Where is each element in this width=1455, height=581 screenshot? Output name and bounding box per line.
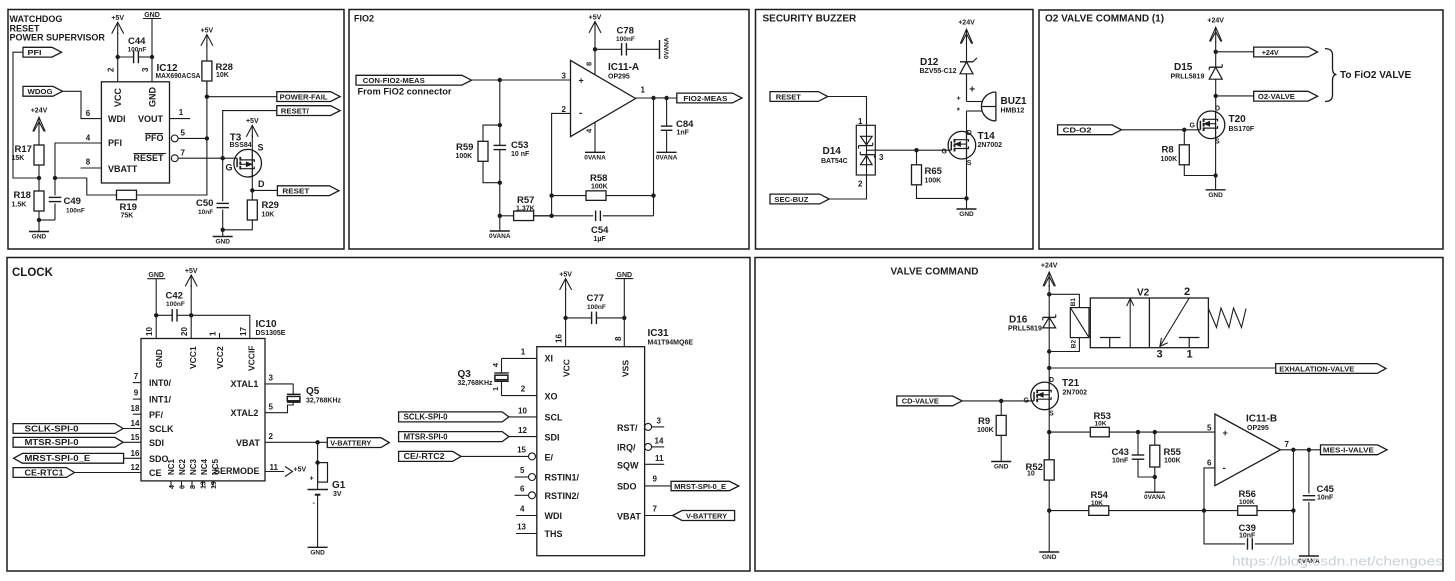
resistor R59 100K [483,125,500,141]
pin SERMODE stub 11 to +5V [265,471,284,473]
svg-text:C43: C43 [1112,447,1129,458]
svg-text:13: 13 [201,481,208,489]
wire +5V to VCC pin 2 [117,32,119,82]
svg-text:V2: V2 [1137,288,1150,299]
wire GND to VSS [623,279,625,347]
wire SCLK to pin 10 [509,416,537,418]
svg-text:+24V: +24V [1262,48,1279,57]
transistor T3 BSS84 [234,149,262,177]
wire C49 bottom to R18 bottom [39,219,55,221]
svg-text:GND: GND [959,211,974,218]
pin INT1/ stub 9 [133,398,141,400]
svg-text:SQW: SQW [617,461,639,471]
svg-text:6: 6 [520,485,525,494]
svg-text:3: 3 [141,67,150,72]
svg-text:R8: R8 [1162,145,1174,156]
svg-text:FIO2-MEAS: FIO2-MEAS [683,94,727,103]
wire R56 to output [1257,510,1293,512]
svg-text:THS: THS [545,529,563,539]
pin 6 stub RSTIN2/ [515,494,529,496]
junction source/ground [964,196,968,200]
svg-text:BUZ1: BUZ1 [1001,96,1028,107]
svg-text:+5V: +5V [589,14,602,21]
wire feedback to op-amp output [654,98,667,216]
svg-text:CD-VALVE: CD-VALVE [902,397,939,406]
svg-text:T21: T21 [1062,378,1080,389]
wire +5V to VCC1 [190,285,192,339]
svg-text:B1: B1 [1070,298,1077,307]
svg-text:XTAL1: XTAL1 [231,379,259,389]
svg-text:15: 15 [131,433,140,442]
transistor T21 2N7002 [1031,382,1059,410]
svg-text:VCC2: VCC2 [215,346,225,369]
svg-text:BS170F: BS170F [1229,126,1255,133]
ground GND (buzzer) [957,208,977,210]
wire to +24V tag [1216,51,1254,53]
svg-text:100nF: 100nF [616,36,635,43]
svg-text:D16: D16 [1009,315,1028,326]
svg-text:VBAT: VBAT [617,512,641,522]
svg-text:2: 2 [269,432,274,441]
svg-text:7: 7 [1285,440,1290,449]
svg-text:G: G [226,163,233,173]
svg-text:MAX690ACSA: MAX690ACSA [156,73,201,80]
svg-text:XI: XI [545,354,554,364]
buzzer BUZ1 HMB12 [995,92,997,121]
svg-text:G: G [942,149,948,156]
svg-text:SCL: SCL [545,413,564,423]
svg-text:CD-O2: CD-O2 [1063,126,1092,135]
svg-text:5: 5 [181,129,186,138]
svg-text:V-BATTERY: V-BATTERY [330,438,371,447]
svg-text:VOUT: VOUT [138,114,164,124]
wire feedback to op-amp - [552,113,571,215]
svg-text:WDI: WDI [108,114,126,124]
ground GND (R9) [991,461,1011,463]
svg-text:C84: C84 [676,119,694,130]
node V-BATTERY output tag [327,438,389,448]
svg-text:NC2: NC2 [178,458,187,475]
svg-text:+5V: +5V [185,268,198,275]
capacitor C84 1nF [666,98,668,126]
svg-text:0VANA: 0VANA [663,37,670,59]
ground 0VANA (R55) [1145,491,1165,493]
svg-text:RSTIN1/: RSTIN1/ [545,473,580,483]
wire D15 to O2-VALVE junction [1215,79,1217,111]
node SEC-BUZ input tag [770,194,829,204]
wire T20 source down [1215,138,1217,190]
junction C50/R29 ground [221,228,225,232]
svg-text:SCLK-SPI-0: SCLK-SPI-0 [25,423,79,433]
svg-text:NC3: NC3 [189,458,198,475]
svg-text:GND: GND [994,464,1009,471]
svg-text:SECURITY BUZZER: SECURITY BUZZER [763,14,857,25]
svg-text:+5V: +5V [559,271,572,278]
svg-text:6: 6 [1207,459,1212,468]
wire +24V to R17 [38,130,40,145]
capacitor C45 10nF [1308,450,1310,494]
node PFI input tag [23,47,62,57]
junction source/R53 [1047,430,1051,434]
svg-text:3: 3 [657,417,662,426]
wire rail to pin 17 [191,315,250,338]
svg-text:1.5K: 1.5K [12,202,27,209]
svg-text:8: 8 [585,62,594,66]
crystal Q5 32,768KHz [292,384,294,394]
svg-text:1nF: 1nF [677,130,690,137]
svg-text:SERMODE: SERMODE [214,466,260,476]
node CD-VALVE input tag [897,396,962,406]
D14 top diode [861,136,873,145]
svg-text:MRST-SPI-0_E: MRST-SPI-0_E [674,482,726,491]
svg-text:B2: B2 [1071,340,1078,349]
svg-text:V-BATTERY: V-BATTERY [686,511,727,520]
wire divider to R19 [55,178,117,195]
pin 5 stub XTAL2 [265,402,293,413]
svg-text:C54: C54 [591,225,609,236]
svg-text:O2-VALVE: O2-VALVE [1258,92,1295,101]
wire R28 to POWER-FAIL junction [206,81,208,97]
junction C44 left [116,55,120,59]
capacitor C77 100nF [591,312,593,325]
svg-text:GND: GND [310,549,325,556]
pin 1 stub XI [502,357,537,359]
svg-text:MES-I-VALVE: MES-I-VALVE [1323,446,1374,455]
resistor R29 10K [247,200,257,220]
pin PF/ stub 18 [133,413,141,415]
svg-text:E/: E/ [545,453,554,463]
svg-text:3: 3 [1157,349,1163,361]
svg-text:10K: 10K [1095,421,1107,428]
wire R18 to ground junction [38,211,40,220]
svg-text:PFI: PFI [28,48,42,57]
svg-text:XO: XO [545,392,558,402]
junction C44 right [150,55,154,59]
junction coil bottom [1047,349,1051,353]
svg-text:0VANA: 0VANA [656,154,678,161]
wire R53 to op-amp + [1109,431,1215,433]
svg-text:WATCHDOG: WATCHDOG [10,14,63,24]
pin 15 circle E/ [529,453,536,460]
svg-text:C53: C53 [511,140,528,151]
svg-text:12: 12 [518,426,527,435]
svg-text:SCLK-SPI-0: SCLK-SPI-0 [404,413,449,422]
wire to O2-VALVE tag [1216,95,1254,97]
wire CON-FIO2-MEAS to op-amp + [470,79,571,81]
svg-text:13: 13 [517,523,526,532]
svg-text:14: 14 [655,437,664,446]
svg-text:2N7002: 2N7002 [1063,390,1088,397]
svg-text:2: 2 [858,180,863,189]
junction - input [1202,508,1206,512]
pin 5 stub RSTIN1/ [515,476,529,478]
diode D15 PRLL5819 [1209,66,1222,68]
svg-text:11: 11 [655,454,664,463]
svg-text:SDO: SDO [617,482,637,492]
svg-text:https://blog.csdn.net/chengoes: https://blog.csdn.net/chengoes [1232,555,1443,569]
junction R55/C43 bottom [1153,475,1157,479]
svg-text:2N7002: 2N7002 [978,142,1003,149]
section box WATCHDOG RESET POWER SUPERVISOR [8,10,344,250]
svg-text:VCCIF: VCCIF [247,346,257,372]
svg-text:1.37K: 1.37K [516,206,535,213]
battery G1 3V [317,442,319,489]
svg-text:BAT54C: BAT54C [821,158,848,165]
node EXHALATION-VALVE output tag [1276,364,1386,374]
svg-text:R29: R29 [262,200,279,211]
svg-text:4: 4 [86,134,91,143]
resistor R57 1.37K [500,215,514,217]
wire feedback down [1292,450,1294,544]
pin 5 PFO circle [171,135,178,142]
wire RESET/ to gate net [223,111,277,159]
svg-text:GND: GND [148,87,158,108]
svg-text:+24V: +24V [1207,18,1224,25]
svg-text:RESET: RESET [282,187,309,196]
svg-text:32,768KHz: 32,768KHz [306,398,342,405]
resistor R8 100K [1183,130,1185,145]
svg-text:1: 1 [1187,349,1193,361]
wire RESET pin to T3 gate [178,157,237,159]
svg-text:3: 3 [879,153,884,162]
svg-text:DS1305E: DS1305E [256,330,286,337]
junction R55 [1153,430,1157,434]
wire PFI pin 4 net [55,143,101,178]
svg-text:RESET/: RESET/ [281,106,310,115]
svg-text:1: 1 [858,117,863,126]
pin 3 wire D14 to gate [867,149,952,151]
wire WDOG to WDI pin 6 [63,91,102,118]
svg-text:R59: R59 [456,142,473,153]
pin 4 stub WDI [516,515,537,517]
wire R29 to ground [223,220,253,230]
node CE/-RTC2 input tag [399,451,461,461]
resistor R18 1.5K [38,178,40,191]
section box O2 VALVE COMMAND (1) [1039,10,1443,249]
svg-text:G: G [1190,123,1196,130]
junction R17/R18 [37,176,41,180]
node CD-O2 input tag [1058,125,1122,135]
svg-text:100nF: 100nF [587,304,606,311]
node POWER-FAIL output tag [277,92,340,102]
svg-text:0VANA: 0VANA [489,233,511,240]
solenoid coil B1/B2 of V2 [1070,308,1089,338]
pin 2 stub XO [502,395,537,397]
ground 0VANA (C45) [1299,555,1319,557]
svg-text:19: 19 [211,481,218,489]
svg-text:1: 1 [491,387,500,391]
svg-text:C49: C49 [64,196,81,207]
junction C49 top [53,176,57,180]
node +24V output tag [1254,47,1318,57]
pin 1 output wire [636,97,677,99]
junction R65/gate [914,148,918,152]
pin 13 stub THS [516,533,537,535]
resistor R19 75K [117,190,137,200]
svg-text:POWER SUPERVISOR: POWER SUPERVISOR [10,33,106,43]
pin INT0/ stub 7 [133,382,141,384]
svg-text:S: S [967,160,972,167]
svg-text:4: 4 [169,485,176,489]
svg-text:9: 9 [653,475,658,484]
wire +24V down [1215,41,1217,67]
svg-text:VCC1: VCC1 [188,346,198,369]
wire GND to pin 3 [151,19,153,82]
svg-text:MTSR-SPI-0: MTSR-SPI-0 [404,432,449,441]
svg-text:3V: 3V [333,491,342,498]
svg-text:-: - [1223,463,1226,474]
svg-text:100nF: 100nF [66,208,85,215]
node CON-FIO2-MEAS input tag [356,75,472,85]
ground GND (O2) [1206,189,1226,191]
wire CD-VALVE to T21 gate [962,400,1034,402]
svg-text:MTSR-SPI-0: MTSR-SPI-0 [25,437,79,447]
svg-text:10nF: 10nF [1317,495,1334,502]
node MTSR-SPI-0 input tag (IC10) [13,437,123,447]
junction C42 left [154,313,158,317]
pin 2 stub VBAT [265,441,318,443]
svg-text:+: + [1223,428,1228,438]
wire R9 to GND [1000,435,1002,461]
diode D14 BAT54C body [856,125,875,175]
svg-text:C42: C42 [166,291,183,302]
svg-text:C50: C50 [196,198,213,209]
svg-text:EXHALATION-VALVE: EXHALATION-VALVE [1279,364,1354,373]
svg-text:+5V: +5V [111,15,124,22]
node FIO2-MEAS output tag [677,93,742,103]
svg-text:+: + [969,85,975,96]
wire R19 right to R28 net [137,81,207,195]
svg-text:D12: D12 [920,57,939,68]
resistor R65 100K [916,150,918,165]
wire RESET to D14 pin 1 [828,97,867,126]
capacitor C42 100nF [171,309,173,322]
svg-text:R65: R65 [925,166,943,177]
brace To FiO2 VALVE [1325,49,1337,102]
svg-text:POWER-FAIL: POWER-FAIL [280,92,328,101]
wire R58 to output node [606,195,654,197]
valve diagonal arrow (right cell) [1160,298,1189,346]
op IC12 MAX690ACSA body [101,82,169,183]
capacitor C44 100nF [118,56,134,58]
svg-text:8: 8 [86,158,91,167]
svg-text:RSTIN2/: RSTIN2/ [545,491,580,501]
svg-text:100K: 100K [456,153,473,160]
svg-text:C44: C44 [128,36,146,47]
svg-text:Q3: Q3 [458,369,472,380]
svg-text:SEC-BUZ: SEC-BUZ [774,195,808,204]
svg-text:RESET: RESET [776,92,801,101]
node MRST-SPI-0_E output tag [671,481,739,490]
svg-text:CE: CE [149,468,162,478]
wire R17 to junction [38,165,40,178]
diode D12 BZV55-C12 zener [960,61,973,63]
wire T3 drain to RESET [251,177,253,191]
svg-text:4: 4 [520,505,525,514]
svg-text:+5V: +5V [201,27,214,34]
svg-text:10: 10 [1027,471,1035,478]
op IC31 M41T94MQ6E body [537,347,645,556]
wire buzzer top corner [966,74,968,102]
node SCLK-SPI-0 input tag (IC10) [13,424,123,434]
wire MTSR to pin 12 [509,436,537,438]
svg-text:OP295: OP295 [1247,425,1269,432]
svg-text:+24V: +24V [31,108,48,115]
svg-text:8: 8 [614,336,623,341]
wire +5V to pin 8 [594,32,596,75]
junction exhalation [1047,366,1051,370]
ground 0VANA (C84) [657,151,677,153]
svg-text:GND: GND [32,234,47,241]
svg-text:C45: C45 [1317,484,1335,495]
svg-text:10: 10 [518,407,527,416]
svg-text:C77: C77 [587,293,604,304]
wire R52 to R54 junction [1048,480,1050,552]
wire pin 4 to 0VANA [594,122,596,152]
ground 0VANA (divider) [490,230,510,232]
svg-text:100nF: 100nF [128,47,147,54]
wire PFI tag to divider [13,52,39,178]
svg-text:100K: 100K [1239,499,1255,506]
capacitor C43 10nF [1137,432,1139,455]
svg-text:+5V: +5V [246,118,259,125]
junction output/feedback [1291,448,1295,452]
svg-text:SDO: SDO [149,454,169,464]
wire CE/-RTC2 to pin 15 [461,455,529,457]
capacitor C50 10nF [222,158,224,201]
svg-text:100K: 100K [1161,156,1178,163]
svg-text:FIO2: FIO2 [354,14,374,24]
wire input divider vertical [499,80,501,125]
svg-text:16: 16 [131,449,140,458]
svg-text:+: + [310,476,314,483]
svg-text:R55: R55 [1164,447,1182,458]
svg-text:32,768KHz: 32,768KHz [458,380,494,387]
svg-text:PF/: PF/ [149,410,164,420]
D14 internal wire [866,125,868,175]
svg-text:7: 7 [134,372,139,381]
svg-text:RST/: RST/ [617,423,638,433]
wire T14 source to ground [966,158,968,198]
svg-text:100K: 100K [977,427,994,434]
svg-text:1: 1 [641,86,646,95]
svg-text:D: D [967,130,972,137]
wire R8 to source net [1184,165,1215,176]
svg-text:S: S [258,143,264,153]
node RESET input tag (buzzer) [770,92,828,102]
op IC10 DS1305E body [141,339,265,481]
svg-text:10K: 10K [216,72,229,79]
pin 1 stub VCC2 [219,333,221,339]
node RESET/ output tag [277,106,340,116]
svg-text:3: 3 [269,374,274,383]
svg-text:D14: D14 [823,146,842,157]
node SCLK-SPI-0 input tag (IC31) [399,412,509,422]
svg-text:GND: GND [154,349,164,368]
svg-text:+: + [579,76,584,86]
svg-text:HMB12: HMB12 [1001,108,1025,115]
svg-text:2: 2 [521,385,526,394]
svg-text:SCLK: SCLK [149,424,174,434]
wire +5V to T3 S [251,135,253,150]
valve arrow up (left cell) [1129,298,1131,347]
svg-text:GND: GND [215,239,230,246]
wire +5V to pin 16 [565,288,567,347]
svg-text:18: 18 [131,404,140,413]
svg-text:IC11-A: IC11-A [608,62,639,73]
svg-text:PFO: PFO [145,133,164,143]
valve spring [1208,308,1246,328]
